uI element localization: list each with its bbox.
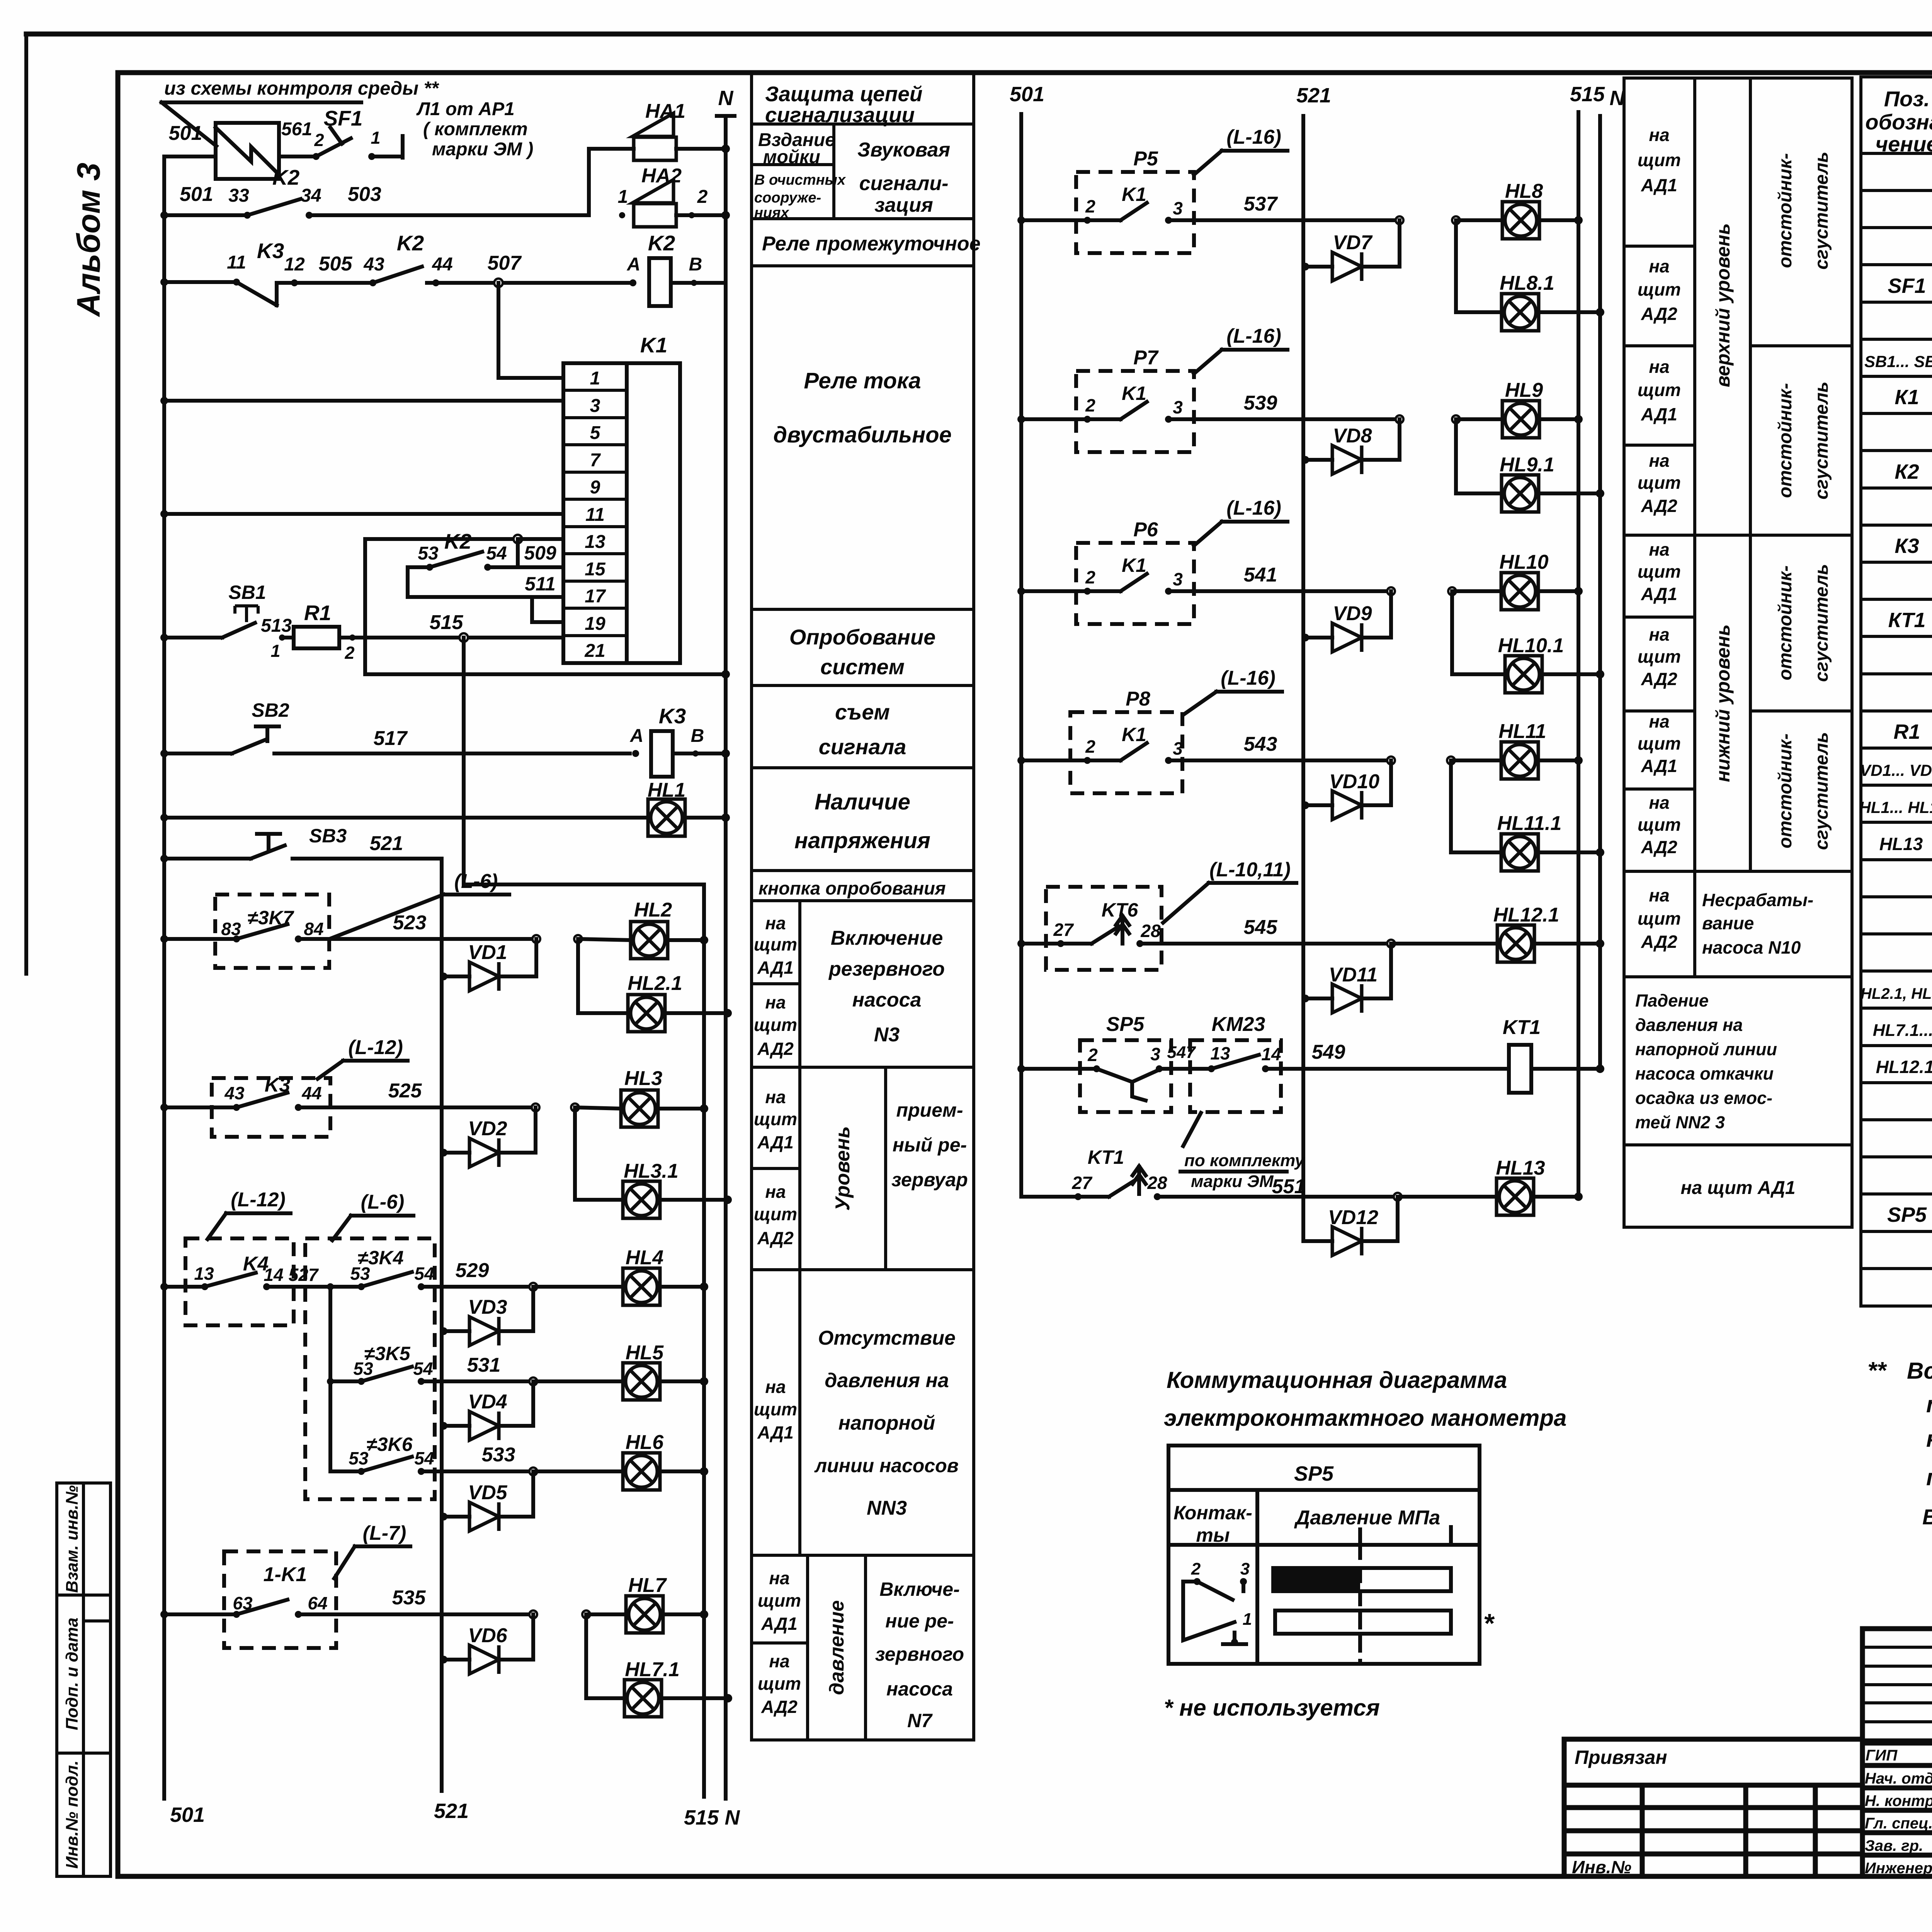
relay coil K2 [629,279,636,286]
svg-text:Взам. инв.№: Взам. инв.№ [63,1485,82,1593]
svg-text:SB2: SB2 [252,699,289,721]
svg-text:вание: вание [1702,913,1754,933]
svg-text:27: 27 [1053,920,1074,940]
svg-text:АД1: АД1 [1641,175,1677,195]
node 507 [494,279,503,287]
svg-text:521: 521 [434,1799,469,1823]
svg-text:на: на [1649,624,1669,645]
svg-text:VD2: VD2 [468,1117,507,1140]
svg-text:отстойник-: отстойник- [1775,383,1796,498]
wire into terminal 11 [160,510,168,518]
svg-text:44: 44 [432,254,452,275]
svg-text:давления на: давления на [1635,1015,1743,1035]
svg-text:на: на [765,913,786,933]
svg-text:новки щита АД2 в помещении: новки щита АД2 в помещении , где электро… [1926,1426,1932,1452]
svg-text:щит: щит [758,1673,801,1694]
svg-text:VD3: VD3 [468,1296,507,1318]
svg-text:ты: ты [1196,1524,1230,1546]
svg-text:19: 19 [585,614,605,634]
svg-text:HL4: HL4 [626,1247,663,1269]
svg-text:2: 2 [1085,196,1095,216]
svg-text:43: 43 [363,254,384,275]
svg-text:Включе-: Включе- [879,1578,960,1600]
wire row 505/507 y=730 [160,278,168,286]
svg-text:щит: щит [754,1109,797,1129]
svg-text:17: 17 [585,586,606,607]
svg-text:обозна-: обозна- [1865,110,1932,134]
svg-text:АД2: АД2 [1641,932,1677,952]
svg-text:9: 9 [590,477,600,498]
svg-text:Поз.: Поз. [1884,87,1930,111]
wire drop 507 to K1 [498,283,563,378]
svg-text:SP5: SP5 [1294,1462,1334,1485]
svg-text:NN3: NN3 [867,1497,907,1519]
svg-text:щит: щит [1638,733,1681,753]
svg-text:525: 525 [388,1080,422,1102]
svg-text:щит: щит [1638,279,1681,299]
row 535 y=4178 [160,1611,168,1618]
svg-text:Контак-: Контак- [1173,1502,1252,1524]
node 515 [459,633,468,642]
svg-text:ГИП: ГИП [1866,1747,1898,1764]
row 543 y=1968 / contact P8 [1017,757,1025,764]
diode VD1 [440,973,447,980]
row 541 y=1530 / contact P6 [1017,587,1025,595]
svg-text:напряжения: напряжения [794,828,930,853]
svg-text:537: 537 [1244,193,1278,215]
svg-text:7: 7 [590,450,601,471]
svg-text:HL9.1: HL9.1 [1500,454,1554,476]
svg-text:K3: K3 [659,704,686,728]
svg-text:Реле тока: Реле тока [804,368,921,393]
svg-text:(L-16): (L-16) [1226,126,1281,148]
svg-text:K1: K1 [1122,383,1146,404]
svg-text:по комплекту: по комплекту [1184,1151,1305,1170]
svg-text:АД1: АД1 [1641,756,1677,776]
svg-text:539: 539 [1244,392,1277,414]
svg-text:HL2: HL2 [634,899,672,921]
row 539 y=1085 / contact P7 [1017,415,1025,423]
svg-text:Н. контр.: Н. контр. [1865,1793,1932,1810]
svg-text:3: 3 [1240,1560,1250,1578]
svg-text:HL2.1: HL2.1 [628,972,682,995]
svg-text:Несрабаты-: Несрабаты- [1702,890,1813,910]
svg-text:28: 28 [1147,1173,1167,1193]
svg-text:54: 54 [414,1264,434,1284]
svg-text:501: 501 [180,183,213,206]
diode VD7 [1301,263,1309,270]
svg-text:R1: R1 [304,601,331,625]
break box [216,123,279,179]
svg-text:Альбом 3: Альбом 3 [70,163,107,317]
svg-text:на: на [1649,711,1669,731]
svg-text:27: 27 [1071,1173,1093,1193]
svg-text:(L-6): (L-6) [454,870,498,893]
svg-text:509: 509 [524,542,556,564]
diode VD12 [1303,1239,1332,1243]
svg-text:АД2: АД2 [1641,837,1677,857]
wire to terminal [372,155,402,158]
svg-text:при аварийном режиме отключа: при аварийном режиме отключается. [1926,1464,1932,1490]
svg-text:33: 33 [228,185,249,206]
svg-text:HL10.1: HL10.1 [1498,634,1564,657]
svg-text:545: 545 [1244,916,1278,939]
svg-text:1: 1 [270,641,280,661]
dashed box 3K4-3K6 [305,1238,435,1499]
svg-text:551: 551 [1272,1175,1306,1198]
svg-text:зация: зация [874,194,933,216]
svg-text:Падение: Падение [1635,991,1709,1010]
svg-text:HL10: HL10 [1499,551,1548,573]
svg-text:1: 1 [618,187,628,207]
svg-text:Звуковая: Звуковая [857,139,950,161]
svg-text:53: 53 [349,1448,369,1468]
svg-text:сгуститель: сгуститель [1811,564,1832,682]
svg-text:3: 3 [1173,397,1183,417]
svg-text:529: 529 [456,1259,489,1282]
svg-text:VD9: VD9 [1333,602,1372,625]
svg-text:3: 3 [1173,738,1183,759]
svg-text:P6: P6 [1133,519,1158,541]
svg-text:53: 53 [418,543,439,564]
svg-text:SF1: SF1 [324,106,363,130]
svg-text:щит: щит [1638,908,1681,929]
row 537 y=570 / contact P5 [1017,216,1025,224]
svg-text:2: 2 [697,187,708,207]
breaker SF1 [279,155,314,158]
svg-text:на: на [1649,125,1669,145]
svg-text:отстойник-: отстойник- [1775,733,1796,848]
svg-text:12: 12 [284,254,305,275]
svg-text:Л1 от АР1: Л1 от АР1 [416,99,515,119]
svg-text:систем: систем [820,655,905,679]
svg-text:503: 503 [348,183,381,206]
svg-text:11: 11 [227,252,246,273]
diode VD2 [440,1149,447,1156]
svg-text:K2: K2 [444,529,472,553]
svg-text:сгуститель: сгуститель [1811,732,1832,850]
svg-text:SF1: SF1 [1888,274,1926,298]
svg-text:B: B [689,254,702,275]
svg-text:N: N [725,1806,740,1829]
svg-text:28: 28 [1140,921,1161,941]
svg-text:515: 515 [1570,83,1605,106]
svg-text:Давление МПа: Давление МПа [1294,1507,1440,1529]
svg-text:тий , эксплуатирующих газобал: тий , эксплуатирующих газобаллонные авто… [1926,1391,1932,1417]
svg-text:Инв.№ подл.: Инв.№ подл. [63,1760,82,1869]
diode VD5 [440,1513,447,1520]
svg-text:HL8: HL8 [1505,180,1543,202]
svg-text:ниях: ниях [754,205,790,221]
svg-text:HL12.1: HL12.1 [1493,904,1560,926]
svg-text:543: 543 [1244,733,1277,755]
svg-text:13: 13 [585,532,605,552]
svg-text:P7: P7 [1133,347,1159,369]
svg-text:верхний уровень: верхний уровень [1712,223,1734,388]
svg-text:В очистных: В очистных [754,172,846,188]
svg-text:HL3: HL3 [624,1067,662,1090]
svg-text:двустабильное: двустабильное [773,422,952,447]
svg-text:*: * [1483,1608,1495,1638]
svg-text:K1: K1 [1122,554,1146,576]
svg-text:SB1: SB1 [228,582,266,603]
svg-text:VD5: VD5 [468,1481,507,1504]
svg-text:SB3: SB3 [309,825,347,847]
HA1 branch [587,149,591,215]
svg-text:щит: щит [1638,815,1681,835]
svg-text:HL7.1...: HL7.1... [1873,1021,1932,1040]
contact K3 11-12 NC [233,279,240,286]
bus 521 [440,859,444,1791]
svg-text:давление: давление [826,1600,848,1695]
svg-text:P5: P5 [1133,148,1158,170]
svg-text:Наличие: Наличие [815,789,910,815]
svg-text:(L-12): (L-12) [231,1189,286,1211]
svg-text:АД2: АД2 [1641,496,1677,516]
svg-text:54: 54 [486,543,507,564]
diode VD3 [440,1327,447,1335]
svg-text:на: на [765,1087,786,1107]
dashed box 3K7 [215,895,329,968]
svg-text:ный ре-: ный ре- [893,1134,967,1156]
svg-text:марки ЭМ ): марки ЭМ ) [432,139,533,160]
svg-text:съем: съем [835,700,890,724]
svg-text:Уровень: Уровень [832,1126,854,1211]
resistor R1 [294,627,339,648]
svg-text:84: 84 [304,919,323,939]
row 529 y=3330 [160,1283,168,1291]
svg-text:N3: N3 [874,1024,900,1046]
svg-text:Привязан: Привязан [1575,1747,1667,1768]
bus 515 [702,884,706,1797]
relay coil K3 [632,750,639,757]
svg-text:на: на [1649,539,1669,560]
horn HA1 [633,113,676,160]
svg-text:13: 13 [1210,1043,1230,1063]
svg-text:14: 14 [1261,1044,1281,1064]
svg-text:2: 2 [1085,395,1095,415]
row 549 y=2766 / SP5 + KM23 [1017,1065,1025,1073]
diode VD4 [440,1422,447,1430]
contact K2 43-44 [369,279,376,286]
svg-text:501: 501 [1010,83,1044,106]
wire into terminal 3 [160,397,168,405]
wire row SB3/521 y=2222 [160,855,168,862]
svg-text:15: 15 [585,559,606,580]
svg-text:Реле промежуточное: Реле промежуточное [762,233,981,255]
svg-text:54: 54 [414,1448,434,1468]
svg-text:VD10: VD10 [1329,770,1379,793]
lamp HL2.1 [576,939,580,1013]
svg-text:Инв.№: Инв.№ [1572,1857,1631,1877]
svg-text:на: на [765,1182,786,1202]
middle function-label table [752,73,981,1740]
svg-text:насоса: насоса [852,989,922,1011]
svg-text:(L-7): (L-7) [363,1522,406,1544]
svg-text:515: 515 [430,611,464,634]
svg-text:АД1: АД1 [757,957,794,978]
pressure bars [1358,1529,1362,1545]
svg-text:2: 2 [1191,1560,1201,1578]
svg-text:523: 523 [393,912,427,934]
svg-text:щит: щит [754,1015,797,1035]
contact K2 33-34 [244,212,251,219]
svg-text:на: на [1649,885,1669,905]
svg-text:K2: K2 [272,165,300,189]
svg-text:HA2: HA2 [641,165,682,187]
svg-text:KT1: KT1 [1088,1146,1124,1168]
svg-text:Гл. спец.: Гл. спец. [1865,1815,1932,1832]
svg-text:щит: щит [1638,150,1681,170]
svg-text:мойки: мойки [763,147,820,167]
svg-text:541: 541 [1244,564,1277,586]
svg-text:43: 43 [224,1083,245,1103]
svg-text:ние ре-: ние ре- [885,1610,954,1632]
bus 515 (middle) [1577,112,1580,1197]
svg-text:HL11.1: HL11.1 [1497,812,1562,835]
lamp HL1 row y=2116 [160,814,168,821]
svg-text:В остальных случаях клеммы 5: В остальных случаях клеммы 501-561 щита … [1922,1505,1932,1529]
svg-text:B: B [691,726,704,746]
svg-text:64: 64 [308,1593,327,1613]
svg-text:Отсутствие: Отсутствие [818,1327,956,1349]
svg-text:* не используется: * не используется [1164,1695,1380,1721]
svg-text:Защита цепей: Защита цепей [765,82,923,106]
svg-text:HL8.1: HL8.1 [1500,272,1554,294]
svg-text:HL13: HL13 [1496,1157,1545,1179]
svg-text:N: N [718,87,734,110]
bus 521 (middle) [1301,116,1305,1241]
svg-text:1: 1 [590,368,600,389]
svg-text:SP5: SP5 [1887,1203,1927,1226]
svg-text:VD12: VD12 [1328,1206,1378,1229]
diode VD10 [1301,801,1309,809]
svg-text:VD8: VD8 [1333,425,1372,447]
svg-text:14: 14 [264,1265,283,1285]
svg-text:( комплект: ( комплект [423,119,528,139]
diode VD6 [440,1656,447,1663]
svg-text:Коммутационная диаграмма: Коммутационная диаграмма [1167,1367,1507,1393]
svg-text:на щит АД1: на щит АД1 [1680,1178,1795,1198]
svg-text:щит: щит [1638,646,1681,667]
lamp HL11.1 [1449,760,1453,852]
svg-text:513: 513 [261,616,292,636]
bus N (middle) [1598,116,1602,1069]
svg-text:K2: K2 [397,231,424,255]
svg-text:HL3.1: HL3.1 [624,1160,679,1182]
svg-text:Включение: Включение [831,927,943,949]
svg-text:АД2: АД2 [761,1697,798,1717]
inner drawing frame [118,70,1932,75]
svg-text:K2: K2 [648,231,675,255]
svg-text:зервуар: зервуар [891,1169,968,1190]
svg-text:из схемы контроля среды **: из схемы контроля среды ** [164,78,439,99]
svg-text:чение: чение [1876,132,1932,156]
svg-text:сооруже-: сооруже- [754,190,821,206]
svg-text:АД2: АД2 [757,1228,794,1248]
svg-text:HL13: HL13 [1879,834,1923,854]
diode VD9 [1301,634,1309,641]
svg-text:щит: щит [1638,473,1681,493]
svg-text:517: 517 [374,727,408,750]
svg-text:3: 3 [1150,1044,1160,1064]
wire row SB2/517 y=1950 [160,750,168,757]
svg-text:Подп. и дата: Подп. и дата [63,1617,82,1730]
svg-text:Опробование: Опробование [789,625,935,649]
svg-text:К1: К1 [1895,386,1919,409]
svg-text:3: 3 [1173,198,1183,218]
svg-text:АД1: АД1 [1641,584,1677,604]
svg-text:HL5: HL5 [626,1342,664,1364]
svg-text:KT1: KT1 [1503,1016,1541,1039]
svg-text:отстойник-: отстойник- [1775,565,1796,680]
svg-text:насоса: насоса [886,1678,953,1700]
diode VD11 [1301,995,1309,1002]
svg-text:34: 34 [301,185,321,206]
svg-text:53: 53 [353,1359,373,1379]
svg-text:щит: щит [758,1590,801,1611]
svg-text:щит: щит [754,1204,797,1224]
svg-text:на: на [1649,793,1669,813]
svg-text:44: 44 [301,1083,321,1103]
svg-text:К3: К3 [1895,534,1919,558]
wire row K2 503 y=557 [160,211,168,219]
diode VD8 [1301,456,1309,464]
svg-text:электроконтактного манометра: электроконтактного манометра [1164,1405,1566,1431]
svg-text:501: 501 [170,1803,205,1827]
svg-text:A: A [630,726,644,746]
svg-text:на: на [765,992,786,1012]
svg-text:АД2: АД2 [1641,304,1677,324]
svg-text:АД1: АД1 [761,1614,798,1634]
svg-text:521: 521 [1296,84,1331,107]
svg-text:R1: R1 [1893,720,1920,743]
svg-text:давления на: давления на [825,1369,949,1392]
svg-text:прием-: прием- [896,1099,963,1121]
svg-text:АД1: АД1 [757,1132,794,1152]
svg-text:Зав. гр.: Зав. гр. [1865,1837,1923,1854]
svg-text:насоса откачки: насоса откачки [1635,1064,1774,1083]
svg-text:VD7: VD7 [1333,231,1372,254]
svg-text:2: 2 [1085,736,1095,757]
svg-text:АД2: АД2 [1641,669,1677,689]
svg-text:501: 501 [169,122,202,145]
bus 501 [162,156,166,1799]
svg-text:щит: щит [1638,380,1681,400]
svg-text:(L-12): (L-12) [348,1036,403,1059]
terminal block K1 [563,363,627,663]
svg-text:3: 3 [590,396,600,416]
svg-text:VD1... VD12: VD1... VD12 [1860,761,1932,779]
svg-text:на: на [769,1651,789,1671]
svg-text:561: 561 [281,119,312,139]
svg-text:напорной: напорной [838,1412,935,1434]
svg-text:K1: K1 [640,333,667,357]
lamp HL10.1 [1450,591,1454,674]
515 feeder [464,638,704,884]
svg-text:на: на [1649,357,1669,377]
outer sheet border top [26,32,1932,37]
bus N [724,116,728,1799]
svg-text:насоса N10: насоса N10 [1702,937,1801,957]
svg-text:535: 535 [392,1587,426,1609]
svg-text:P8: P8 [1126,688,1150,710]
svg-text:сгуститель: сгуститель [1811,151,1832,269]
svg-text:5: 5 [590,423,601,443]
bus 501 (middle) [1019,114,1023,1197]
svg-text:2: 2 [1087,1045,1098,1065]
svg-text:531: 531 [467,1354,501,1376]
